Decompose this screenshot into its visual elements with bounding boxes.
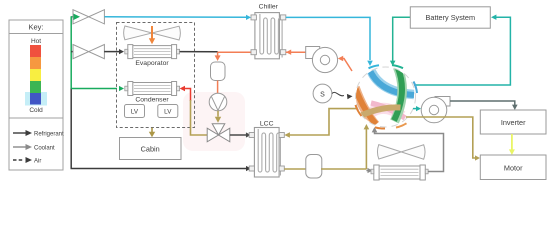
svg-text:Cold: Cold <box>29 107 43 114</box>
wire: gray into radiator <box>366 170 367 172</box>
key legend: coolant arrow <box>13 144 55 152</box>
HVAC dashed box <box>117 23 195 128</box>
svg-text:Battery System: Battery System <box>426 13 475 22</box>
faint pink wash <box>183 92 245 151</box>
radiator <box>371 165 428 180</box>
wire: green to valve V1 <box>71 16 73 18</box>
wire: black evaporator to junction <box>180 51 218 53</box>
wire: black vertical left down <box>70 89 72 169</box>
wire: black bottom run to LCC <box>71 168 247 170</box>
wire: gray pump to inverter <box>450 101 515 106</box>
wire: khaki pump to 3-way valve <box>217 111 219 117</box>
wire: red condenser inlet <box>184 89 191 102</box>
wire: teal circle to battery <box>393 17 410 61</box>
valve V1 <box>73 10 104 24</box>
circle rim colored arcs <box>356 65 418 128</box>
svg-text:Refrigerant: Refrigerant <box>34 132 64 138</box>
wire: dark valve to LCC <box>230 134 247 136</box>
valve V2 <box>73 45 104 59</box>
3-way valve <box>207 124 230 142</box>
svg-text:LCC: LCC <box>260 121 274 128</box>
wire: khaki to 3-way valve left <box>191 100 208 135</box>
wire: cyan valve V1 to chiller <box>105 16 247 19</box>
wire: orange chiller to compressor <box>286 51 306 53</box>
receiver cylinder <box>211 62 226 81</box>
svg-text:Cabin: Cabin <box>141 144 160 153</box>
wire: yellow inverter to motor <box>511 134 513 151</box>
wire: khaki up into circle <box>365 129 367 170</box>
cabin box <box>120 138 182 160</box>
receiver cylinder 2 <box>306 155 322 179</box>
air arrow through fan <box>151 26 153 39</box>
wire: teal battery return <box>414 17 510 85</box>
svg-text:Condenser: Condenser <box>135 97 169 104</box>
wire: cyan chiller to valve circle <box>286 17 370 60</box>
evaporator <box>125 45 180 67</box>
wire: green supply vertical <box>70 16 72 89</box>
svg-text:LV: LV <box>164 109 172 116</box>
svg-text:S: S <box>320 91 325 98</box>
wire: khaki LCC bottom-right to receiver2 <box>284 168 306 170</box>
key panel box <box>9 20 63 170</box>
wire: orange receiver to pump <box>217 81 219 94</box>
key legend: refrigerant arrow <box>13 130 64 138</box>
battery system box <box>410 7 490 28</box>
svg-text:Inverter: Inverter <box>501 118 526 127</box>
key legend: air arrow <box>13 157 41 165</box>
key gradient bar <box>25 38 47 114</box>
radiator fan <box>377 145 425 160</box>
wire: orange circle to compressor diagonal <box>342 59 352 72</box>
svg-text:Evaporator: Evaporator <box>135 60 169 67</box>
wire: teal circle to right pump <box>413 108 416 110</box>
wire: khaki LCC top-right loop to circle <box>289 109 358 135</box>
chiller heat exchanger <box>251 13 286 59</box>
condenser <box>125 82 180 104</box>
wire: green to condenser <box>71 88 117 90</box>
svg-text:Hot: Hot <box>31 38 41 45</box>
chain pump circle <box>209 93 227 111</box>
wire: orange junction to chiller <box>218 51 251 53</box>
compressor pump <box>306 47 338 73</box>
wire: gray radiator return to circle <box>375 132 444 172</box>
right pump <box>421 97 450 123</box>
wire: black branch to valve V2 <box>71 51 73 53</box>
wire: black valve V2 to evaporator <box>104 51 119 53</box>
wire: orange drop to receiver <box>217 52 219 55</box>
air arrow to cabin <box>151 128 153 132</box>
fan above evaporator <box>124 26 181 40</box>
wire: khaki receiver2 east run <box>321 168 366 170</box>
motor box <box>480 155 546 180</box>
LCC heat exchanger <box>249 128 284 178</box>
LV box 1 <box>125 105 145 118</box>
inverter box <box>480 110 546 134</box>
svg-text:Motor: Motor <box>504 163 523 172</box>
wire: khaki circle to motor <box>406 117 476 158</box>
svg-text:LV: LV <box>131 109 139 116</box>
svg-text:Chiller: Chiller <box>259 4 279 11</box>
sensor S <box>313 84 352 103</box>
LV box 2 <box>158 105 178 118</box>
multiway valve circle <box>355 66 416 128</box>
svg-text:Key:: Key: <box>28 23 43 32</box>
svg-text:Air: Air <box>34 159 41 165</box>
svg-text:Coolant: Coolant <box>34 146 55 152</box>
